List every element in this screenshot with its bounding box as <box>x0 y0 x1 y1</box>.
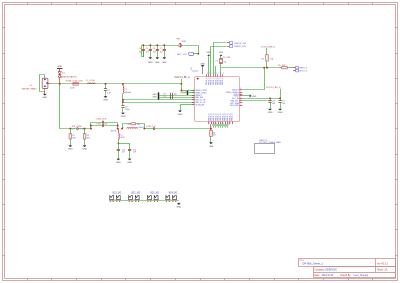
svg-text:SMBJ5V0A(TR): SMBJ5V0A(TR) <box>61 75 77 78</box>
svg-text:X1_12M: X1_12M <box>223 57 230 59</box>
svg-text:FUSE_0.5A_1206: FUSE_0.5A_1206 <box>66 80 84 83</box>
label FB1 <box>177 38 187 43</box>
svg-text:GND: GND <box>82 149 87 151</box>
title block <box>299 259 396 278</box>
capacitors C11 C12 parallel <box>90 121 119 130</box>
capacitor C17 <box>279 98 282 108</box>
label L2 <box>125 89 132 94</box>
resistor R4 <box>266 55 269 61</box>
svg-text:2: 2 <box>240 102 241 104</box>
ground under C13 <box>116 159 121 164</box>
gnd text row <box>148 62 167 64</box>
wire nrst rail <box>221 67 279 69</box>
wire AVDD <box>123 99 195 101</box>
svg-text:BOOT_3: BOOT_3 <box>299 71 308 73</box>
ground right of U1 <box>242 94 256 98</box>
wire AVSS <box>123 102 195 104</box>
labels P1 <box>234 43 247 48</box>
svg-text:104: 104 <box>160 51 163 53</box>
svg-text:GND: GND <box>162 62 167 64</box>
svg-text:104: 104 <box>272 103 275 105</box>
mount B22_M2 a <box>128 196 133 202</box>
labels L5 <box>123 127 144 129</box>
connector J1 <box>40 75 51 92</box>
svg-text:104: 104 <box>153 51 156 53</box>
mount B21_M2 b <box>116 196 121 202</box>
U1 right pins <box>226 88 243 107</box>
wire lower rail right <box>155 128 212 130</box>
svg-text:GND: GND <box>57 66 62 68</box>
svg-text:USB: USB <box>209 146 214 148</box>
mount B24_M2 a <box>165 196 170 202</box>
labels R1 <box>72 135 75 139</box>
svg-text:SINGIR_HEAD: SINGIR_HEAD <box>22 88 37 91</box>
net label VCC3.3_BF_D right <box>266 87 281 89</box>
svg-text:Company:: Company: <box>314 269 325 271</box>
label B24_M2 <box>169 193 178 195</box>
wire pin1 <box>181 90 194 92</box>
svg-text:PA10_U: PA10_U <box>231 113 234 121</box>
note DO NOT PLACE <box>259 140 281 144</box>
svg-text:C5: C5 <box>146 48 148 50</box>
label C2 <box>125 107 130 112</box>
svg-text:R8: R8 <box>128 124 130 126</box>
svg-text:2: 2 <box>211 73 212 75</box>
ground <box>42 91 47 99</box>
label FB2 <box>72 126 82 128</box>
ground under C14 <box>127 159 132 164</box>
svg-text:Y1: Y1 <box>215 61 217 63</box>
svg-text:1: 1 <box>193 101 194 103</box>
svg-text:VSS_GND: VSS_GND <box>230 105 240 107</box>
U1 inner outline <box>194 101 196 119</box>
MCU U1 <box>195 77 240 122</box>
svg-text:R5_33R: R5_33R <box>278 65 286 67</box>
svg-text:10R_1/16W: 10R_1/16W <box>72 126 82 128</box>
svg-text:GND: GND <box>148 62 153 64</box>
svg-text:2: 2 <box>214 73 215 75</box>
svg-text:2: 2 <box>240 99 241 101</box>
svg-text:680nH: 680nH <box>125 92 132 94</box>
svg-text:C9: C9 <box>163 96 165 98</box>
svg-text:2: 2 <box>240 88 241 90</box>
svg-text:GND: GND <box>42 97 47 99</box>
label C6 <box>153 48 156 53</box>
svg-text:0R0: 0R0 <box>87 138 90 140</box>
mount B23_M2 b <box>154 196 159 202</box>
label C5 <box>146 48 149 53</box>
net flag ADC_C14 <box>177 52 198 56</box>
svg-text:CON1_100nF: CON1_100nF <box>96 124 109 126</box>
svg-text:DP-866_Sheet_1: DP-866_Sheet_1 <box>302 261 323 265</box>
crystal X1 <box>219 56 223 68</box>
label R5 <box>278 65 286 67</box>
wire VBUS <box>180 79 182 91</box>
capacitor C8 <box>171 93 173 99</box>
wire VCC branch <box>182 46 200 55</box>
power flag VPWR <box>180 91 194 95</box>
mount B23_M2 a <box>147 196 152 202</box>
svg-text:22p: 22p <box>174 94 177 96</box>
label B21_M2 <box>113 193 122 195</box>
svg-text:B24_M2: B24_M2 <box>169 193 178 195</box>
svg-text:GND: GND <box>155 62 160 64</box>
mount B21_M2 a <box>109 196 114 202</box>
svg-text:GND: GND <box>68 149 73 151</box>
ground USB <box>209 142 214 148</box>
labels P2 <box>299 67 308 72</box>
inductor L4 <box>118 129 119 144</box>
svg-text:1: 1 <box>193 98 194 100</box>
svg-text:10k: 10k <box>270 59 273 61</box>
net label VCC3.3_BF_A <box>174 76 190 79</box>
ground X1 b <box>219 52 224 56</box>
mount B24_M2 b <box>172 196 177 202</box>
svg-text:1: 1 <box>209 123 210 125</box>
label J1 <box>22 85 37 91</box>
svg-text:Leon_Cheung: Leon_Cheung <box>354 275 369 277</box>
connector P1 <box>227 42 233 48</box>
label C1 <box>107 90 111 95</box>
resistor R8 branch <box>121 123 145 130</box>
resistor R2 <box>83 129 86 146</box>
svg-text:1: 1 <box>230 123 231 125</box>
wire pullup bottom <box>266 61 268 68</box>
svg-text:680nH: 680nH <box>138 127 144 129</box>
labels C16 <box>272 100 275 105</box>
svg-text:2: 2 <box>223 73 224 75</box>
label C15 <box>146 126 156 128</box>
svg-text:4R7u: 4R7u <box>120 137 124 139</box>
ground under R1 <box>68 145 73 150</box>
svg-text:VPWR: VPWR <box>180 93 187 95</box>
svg-text:VDDA_BF: VDDA_BF <box>195 104 205 107</box>
svg-text:GND: GND <box>268 112 273 114</box>
svg-text:Sheet: 1/1: Sheet: 1/1 <box>377 268 388 271</box>
svg-text:rev V0.3.1: rev V0.3.1 <box>377 262 389 265</box>
svg-text:2023-10-30: 2023-10-30 <box>322 275 334 277</box>
connector P2 <box>293 67 299 72</box>
svg-text:GND: GND <box>127 162 132 164</box>
svg-text:2: 2 <box>218 73 219 75</box>
net label VUSB <box>242 101 271 103</box>
svg-text:C17: C17 <box>282 100 285 102</box>
svg-text:120R: 120R <box>182 41 187 43</box>
svg-text:GND: GND <box>152 97 157 99</box>
labels R2 <box>87 135 90 139</box>
wire xtal pins <box>159 96 194 98</box>
svg-text:GND: GND <box>121 116 126 118</box>
ground X1 a <box>206 52 211 56</box>
wire swclk <box>214 43 227 75</box>
inductor L5 <box>127 127 138 130</box>
svg-text:C16: C16 <box>272 100 275 102</box>
ground under C16 <box>268 109 273 114</box>
label B23_M2 <box>150 193 159 195</box>
svg-text:CON2_1uF: CON2_1uF <box>146 126 156 128</box>
ground under C17 <box>278 109 283 114</box>
svg-text:2: 2 <box>216 73 217 75</box>
svg-text:PB12_X: PB12_X <box>222 77 224 85</box>
svg-text:GND: GND <box>176 206 181 208</box>
label C7 <box>160 48 163 53</box>
svg-text:B21_M2: B21_M2 <box>113 193 122 195</box>
bottom pin net flags <box>212 125 228 128</box>
ground <box>148 57 152 59</box>
inductor L1 <box>88 82 96 85</box>
U1 left pins <box>192 89 208 107</box>
svg-text:ADC_C14: ADC_C14 <box>177 53 187 56</box>
ferrite bead FB1 <box>179 43 181 47</box>
svg-text:VCC3.3_BF_D: VCC3.3_BF_D <box>261 46 276 48</box>
svg-text:2: 2 <box>209 73 210 75</box>
svg-text:L: L <box>123 127 124 129</box>
svg-text:PA2_CL_IN: PA2_CL_IN <box>195 101 205 104</box>
svg-text:0R0: 0R0 <box>72 138 75 140</box>
wire swclk up <box>243 68 265 90</box>
wire xo <box>216 66 221 74</box>
svg-text:Date:: Date: <box>314 274 320 277</box>
label L1 <box>86 80 96 82</box>
wire usb gnd <box>210 137 212 143</box>
svg-text:B23_M2: B23_M2 <box>150 193 159 195</box>
note arrow <box>190 66 199 72</box>
wire mount rail <box>109 200 179 202</box>
wire gnd-a <box>208 56 210 74</box>
svg-text:2: 2 <box>240 91 241 93</box>
wire cap bank rail <box>142 44 179 56</box>
capacitor C1 <box>104 84 107 96</box>
wire seg <box>70 128 92 130</box>
resistor R5 <box>279 67 293 69</box>
svg-text:Drawn By:: Drawn By: <box>341 274 352 277</box>
svg-text:GND: GND <box>178 114 183 116</box>
label F1 <box>66 80 84 90</box>
label D1 <box>61 72 77 78</box>
labels R4 <box>261 59 273 61</box>
wire usb pin <box>210 124 212 130</box>
U1 bottom pins <box>207 113 233 125</box>
capacitor C6 <box>156 45 159 57</box>
U1 top pins <box>206 73 224 85</box>
ground under C2 <box>121 113 126 118</box>
svg-text:104: 104 <box>146 51 149 53</box>
labels R6 <box>213 132 216 136</box>
capacitor C16 <box>268 98 271 108</box>
label L4 value <box>111 131 117 133</box>
svg-text:CON3_10uF: CON3_10uF <box>96 118 107 120</box>
ground above D1 <box>57 66 63 68</box>
svg-text:GND: GND <box>103 99 108 101</box>
mount B22_M2 b <box>135 196 140 202</box>
labels R8 <box>128 124 141 126</box>
svg-text:VCC3.3_BF_D: VCC3.3_BF_D <box>266 87 281 89</box>
svg-text:1: 1 <box>232 123 233 125</box>
svg-text:1k5: 1k5 <box>213 135 216 137</box>
svg-text:9p: 9p <box>224 61 226 63</box>
svg-text:C7: C7 <box>160 48 162 50</box>
capacitor C5 <box>149 45 152 57</box>
net label VCC3.3_BF_D top <box>261 46 276 48</box>
svg-text:2: 2 <box>240 95 241 97</box>
inductor L2 <box>122 84 124 106</box>
svg-text:GND: GND <box>116 162 121 164</box>
svg-text:SWCLK_3V3: SWCLK_3V3 <box>234 43 247 45</box>
capacitor C15 <box>144 127 154 130</box>
svg-text:GND: GND <box>278 112 283 114</box>
svg-text:C4: C4 <box>139 48 141 50</box>
svg-text:R4: R4 <box>261 59 263 61</box>
resistor R1 <box>69 129 72 146</box>
svg-text:C6: C6 <box>153 48 155 50</box>
wire vcc label <box>280 89 282 99</box>
svg-text:L1_4.7uH: L1_4.7uH <box>86 80 96 82</box>
ground under R2 <box>82 145 87 150</box>
svg-text:2: 2 <box>207 73 208 75</box>
ground under C1 <box>103 96 108 101</box>
labels C13 C14 <box>122 149 137 153</box>
wire 5V rail <box>51 83 183 85</box>
svg-text:Cortex: Cortex <box>192 70 199 73</box>
svg-text:GND: GND <box>219 52 224 54</box>
svg-text:2: 2 <box>240 104 241 106</box>
wire vcc right <box>242 97 281 99</box>
box outline <box>255 144 275 154</box>
svg-text:4R7uH: 4R7uH <box>111 131 117 133</box>
svg-text:10u: 10u <box>139 51 142 53</box>
svg-text:NRST_3: NRST_3 <box>299 67 308 69</box>
svg-text:GND: GND <box>252 96 257 98</box>
capacitor C2 <box>121 106 124 113</box>
fuse F1 <box>73 83 79 86</box>
wire lower rail left <box>60 84 72 130</box>
label X1 <box>215 57 230 63</box>
resistor R6 <box>210 130 213 136</box>
ground <box>162 57 166 59</box>
label C4 <box>139 48 142 53</box>
svg-text:B22_M2: B22_M2 <box>132 193 141 195</box>
labels C17 <box>282 100 286 105</box>
labels C8 C9 <box>163 94 176 98</box>
label L4 <box>120 135 124 139</box>
svg-text:SWDIO_3V3: SWDIO_3V3 <box>234 46 246 48</box>
series element FB2 <box>71 127 84 130</box>
svg-text:2: 2 <box>240 97 241 99</box>
ground U1 VSS <box>178 105 195 116</box>
gnd flags left of U1 <box>152 92 158 99</box>
svg-text:VCC3.3_BF_A: VCC3.3_BF_A <box>174 76 190 79</box>
capacitor C4 <box>142 50 145 58</box>
ground mount rail <box>176 203 181 208</box>
wire swdio <box>211 47 227 75</box>
label B22_M2 <box>132 193 141 195</box>
ground <box>155 57 159 59</box>
capacitors C13 C14 <box>117 143 132 159</box>
wire pullup top <box>266 48 268 55</box>
svg-text:DEEPVISC: DEEPVISC <box>326 269 338 271</box>
ground above U1 <box>200 63 205 74</box>
diode D1 <box>58 69 61 84</box>
labels C11 C12 <box>96 118 109 125</box>
capacitor C7 <box>163 45 166 57</box>
